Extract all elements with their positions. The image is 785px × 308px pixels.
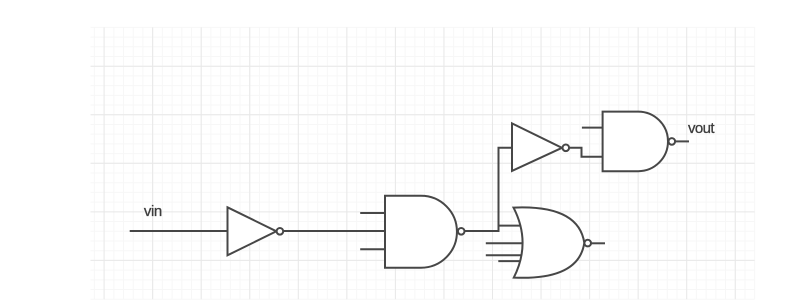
svg-text:vout: vout [688, 120, 715, 137]
svg-text:vin: vin [144, 203, 162, 220]
inverter U3 [512, 123, 562, 170]
wire vout output [675, 140, 689, 142]
inversion bubble U4 [584, 240, 591, 247]
nand U2 input stub bottom [360, 248, 385, 250]
inversion bubble U1 [277, 228, 284, 235]
inversion bubble U5 [669, 138, 676, 145]
nand U5 input stub top [582, 127, 603, 129]
wire branch to U4 nor top input [499, 225, 521, 227]
nor U4 body (NOR gate) [514, 207, 585, 277]
inverter U1 (vin buffer) [228, 207, 277, 255]
nand U5 body (2-input NAND) [603, 112, 668, 172]
inversion bubble U3 [563, 145, 570, 152]
wire U3 output to U5 lower input [569, 148, 603, 157]
nor U4 input stub 3 [498, 260, 520, 262]
wire vin input [130, 230, 228, 232]
inversion bubble U2 [458, 228, 465, 235]
wire U4 output [591, 242, 605, 244]
nand U2 body (3-input NAND) [385, 196, 457, 268]
wire U1 output to U2 middle input [283, 230, 385, 232]
nor U4 input stub 2 [486, 254, 522, 256]
nand U2 input stub top [360, 212, 385, 214]
wire U2 output rising to U3 inverter input [464, 148, 512, 232]
nor U4 input stub 1 [486, 242, 523, 244]
